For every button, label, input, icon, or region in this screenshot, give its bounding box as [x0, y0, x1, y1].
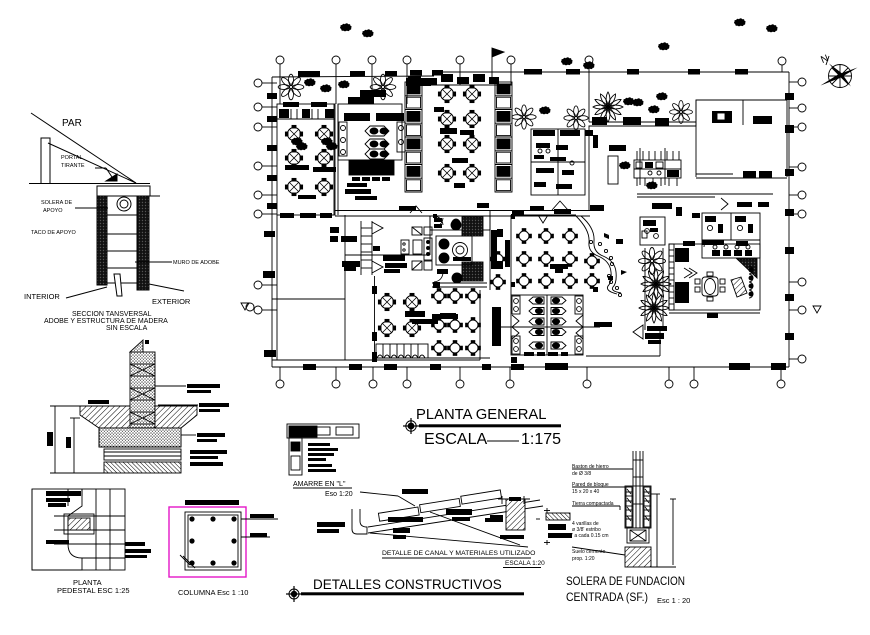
svg-text:1:175: 1:175 [521, 431, 561, 448]
svg-text:DETALLES CONSTRUCTIVOS: DETALLES CONSTRUCTIVOS [313, 577, 502, 592]
svg-text:PAR: PAR [62, 118, 82, 129]
svg-text:de Ø 3/8: de Ø 3/8 [572, 471, 591, 477]
svg-text:CENTRADA (SF.): CENTRADA (SF.) [566, 590, 648, 604]
svg-text:DETALLE DE CANAL Y MATERIALES: DETALLE DE CANAL Y MATERIALES UTILIZADO [382, 550, 535, 557]
svg-text:COLUMNA Esc 1 :10: COLUMNA Esc 1 :10 [178, 588, 248, 597]
svg-text:AMARRE EN "L": AMARRE EN "L" [293, 481, 346, 488]
svg-text:TIRANTE: TIRANTE [61, 163, 85, 169]
svg-text:PLANTA GENERAL: PLANTA GENERAL [416, 407, 546, 423]
svg-text:APOYO: APOYO [43, 208, 63, 214]
svg-text:SIN ESCALA: SIN ESCALA [106, 325, 148, 332]
svg-text:15 x 20 x 40: 15 x 20 x 40 [572, 489, 599, 495]
svg-text:SECCION TANSVERSAL: SECCION TANSVERSAL [72, 311, 152, 318]
svg-text:' a cada 0.15 cm: ' a cada 0.15 cm [572, 533, 609, 539]
svg-text:Esc 1 : 20: Esc 1 : 20 [657, 596, 690, 605]
svg-text:ADOBE Y ESTRUCTURA DE MADERA: ADOBE Y ESTRUCTURA DE MADERA [44, 318, 168, 325]
svg-text:SOLERA DE FUNDACION: SOLERA DE FUNDACION [566, 574, 685, 588]
svg-text:MURO DE ADOBE: MURO DE ADOBE [173, 260, 220, 266]
svg-text:TACO DE APOYO: TACO DE APOYO [31, 230, 77, 236]
svg-text:SOLERA DE: SOLERA DE [41, 200, 73, 206]
svg-text:prop. 1:20: prop. 1:20 [572, 556, 595, 562]
svg-text:ESCALA: ESCALA [424, 431, 487, 448]
svg-text:EXTERIOR: EXTERIOR [152, 297, 191, 306]
svg-text:PORTAL: PORTAL [61, 155, 83, 161]
svg-text:PEDESTAL ESC 1:25: PEDESTAL ESC 1:25 [57, 586, 130, 595]
svg-text:ESCALA 1:20: ESCALA 1:20 [505, 560, 545, 567]
svg-text:Eso 1:20: Eso 1:20 [325, 491, 353, 498]
svg-text:INTERIOR: INTERIOR [24, 292, 60, 301]
